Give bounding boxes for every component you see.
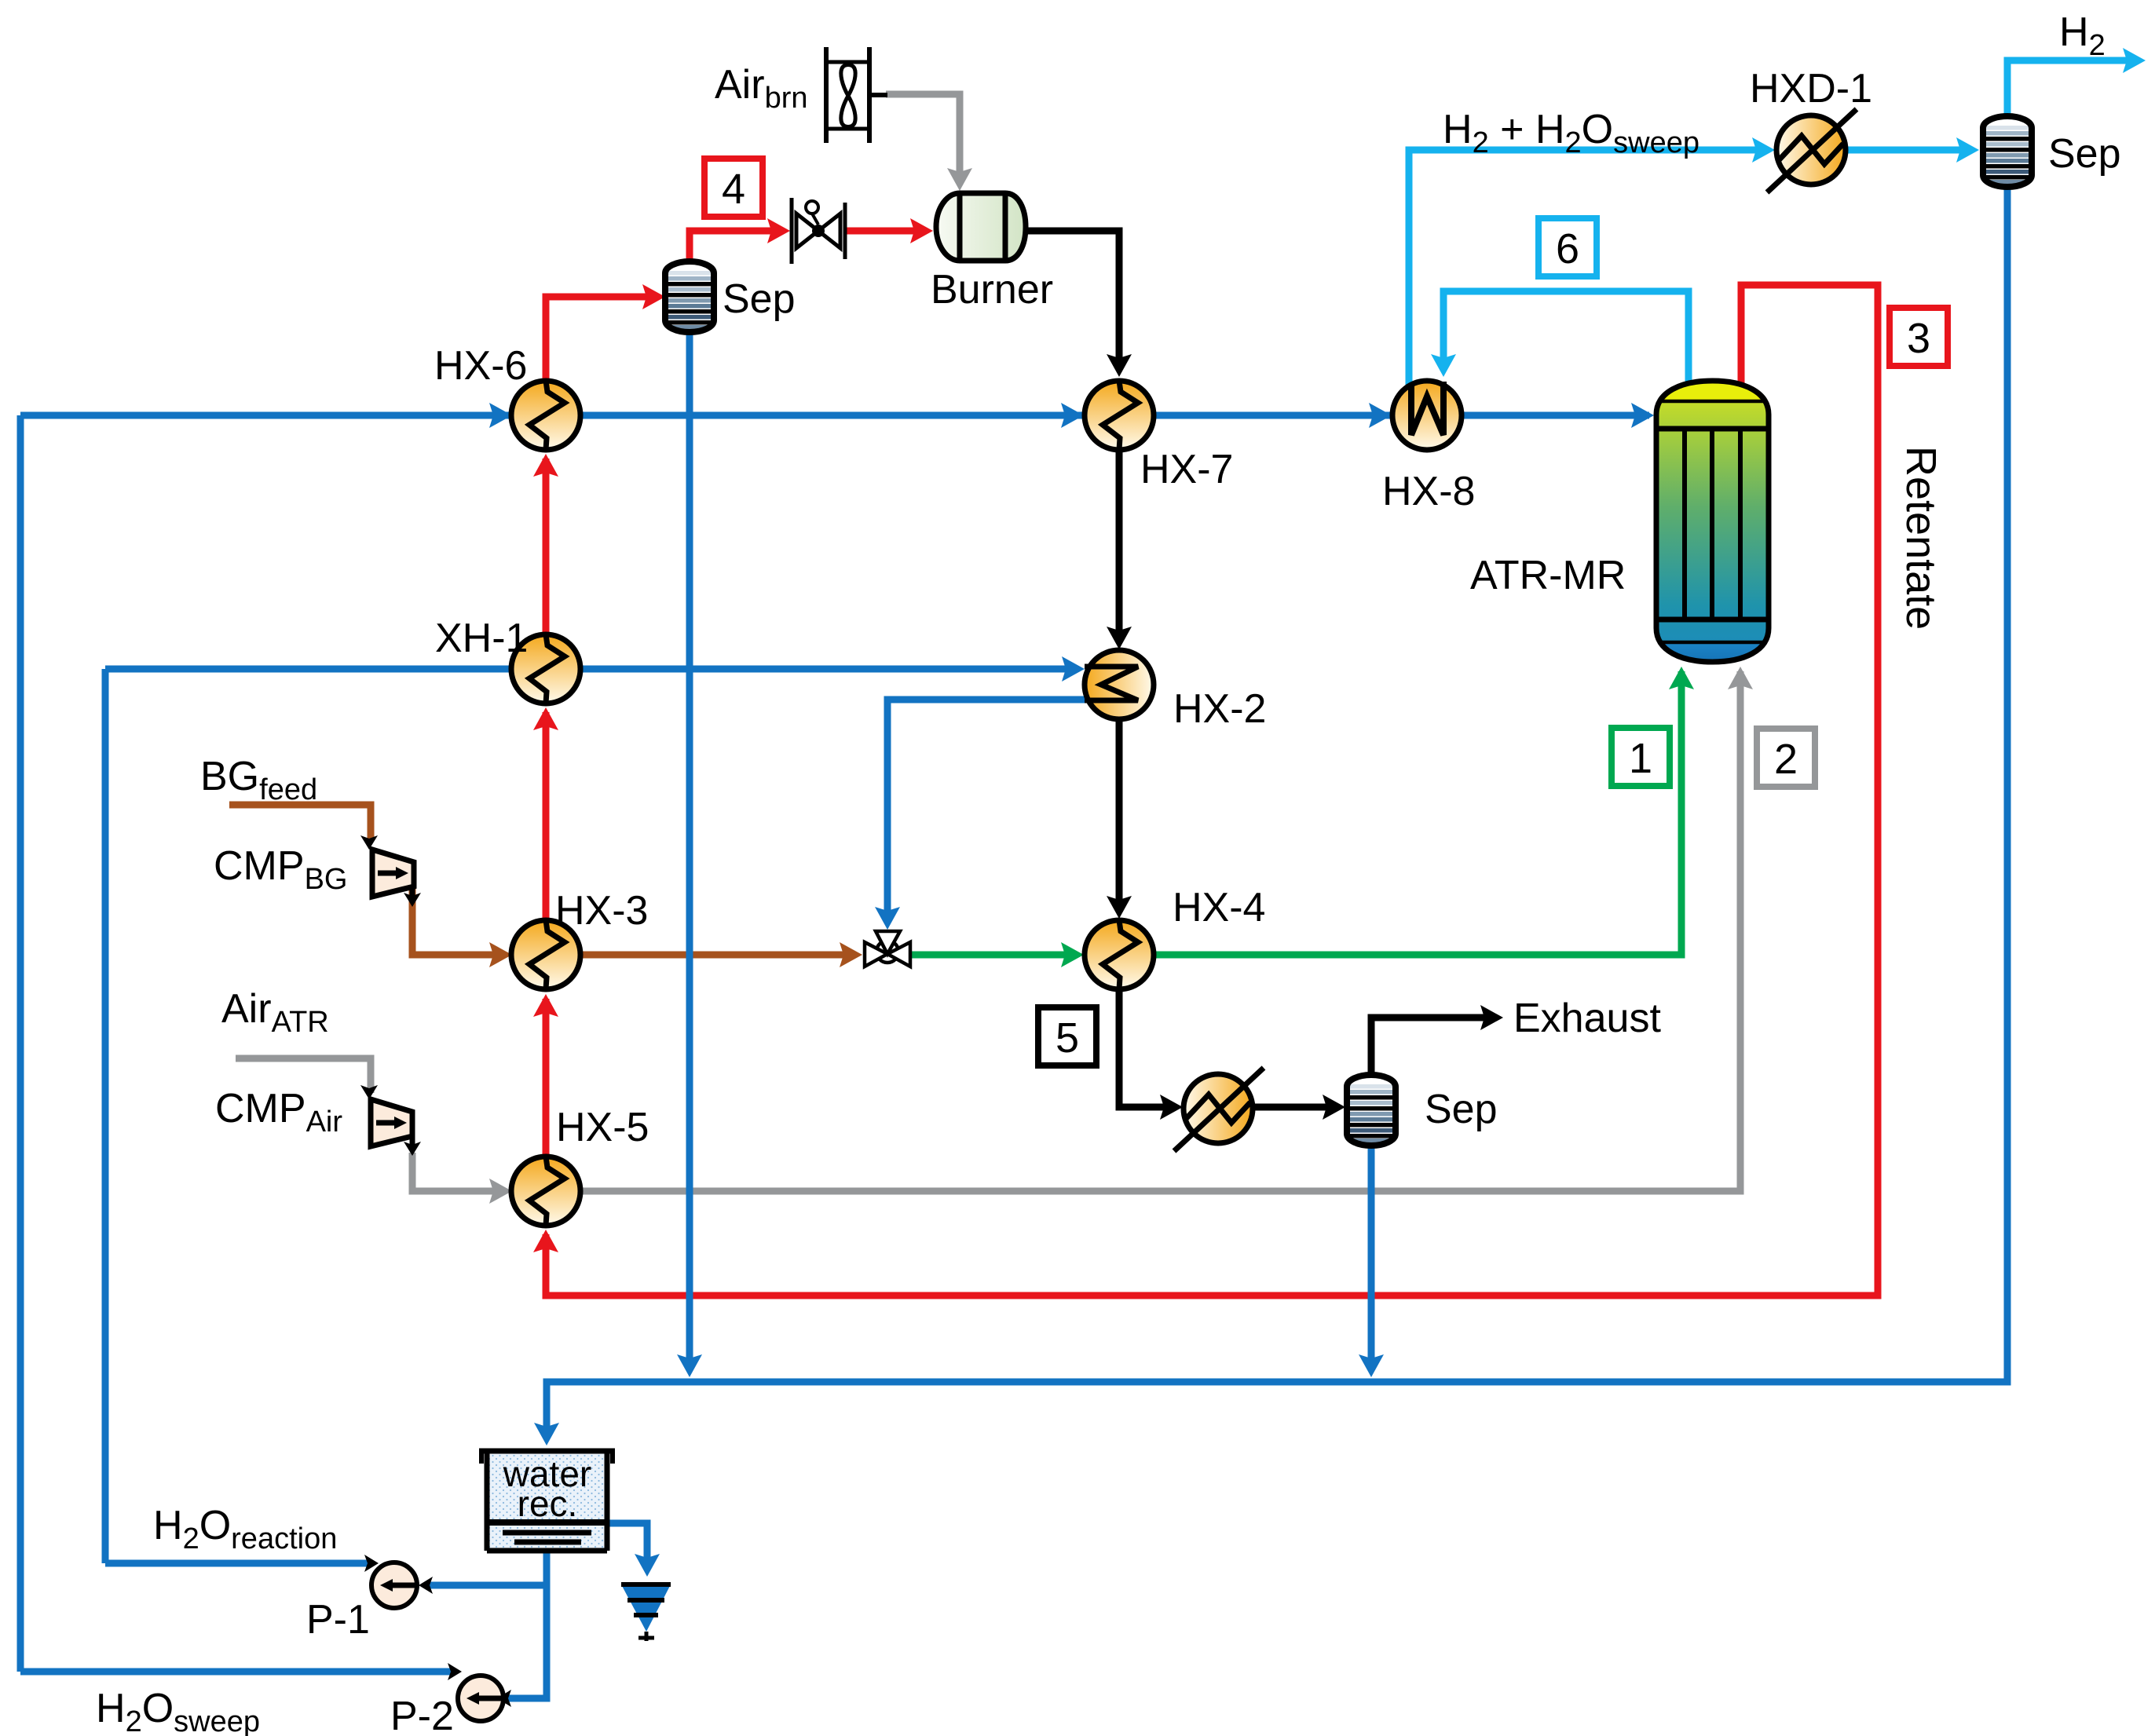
svg-text:HX-8: HX-8 bbox=[1382, 469, 1475, 514]
wire brown HX-3 to mixing valve bbox=[580, 952, 854, 959]
compressor CMP_BG bbox=[372, 850, 414, 897]
node stream box 2 bbox=[1757, 729, 1815, 787]
valve V-1 (burner feed control valve) bbox=[792, 198, 845, 264]
svg-text:HX-5: HX-5 bbox=[556, 1105, 649, 1150]
svg-text:XH-1: XH-1 bbox=[435, 616, 528, 661]
wire blue tank bottom to pumps bbox=[507, 1551, 547, 1698]
separator Sep (H2 product) bbox=[1983, 116, 2032, 187]
svg-text:HXD-1: HXD-1 bbox=[1750, 66, 1872, 111]
arrow blue into HX-7 bbox=[1061, 403, 1084, 428]
wire cyan HXD-1 to Sep bbox=[1846, 147, 1971, 154]
wire black burner outlet down through HX-7 bbox=[1026, 231, 1119, 370]
svg-text:2: 2 bbox=[1774, 736, 1798, 783]
svg-text:1: 1 bbox=[1629, 735, 1652, 782]
wire brown BGfeed to CMP inlet bbox=[229, 805, 371, 839]
heat-exchanger HX-6 bbox=[511, 381, 580, 450]
fan Air_brn bbox=[826, 47, 887, 143]
node stream box 3 bbox=[1890, 308, 1948, 366]
heat-exchanger HX-3 bbox=[511, 920, 580, 989]
svg-text:Sep: Sep bbox=[2048, 131, 2121, 177]
svg-text:5: 5 bbox=[1056, 1014, 1079, 1062]
svg-text:Sep: Sep bbox=[723, 276, 796, 322]
svg-text:4: 4 bbox=[722, 166, 745, 213]
wire black HX-2 to HX-4 bbox=[1116, 719, 1123, 912]
wire gray HX-5 to ATR bottom (stream 2) bbox=[580, 671, 1740, 1191]
wire red vertical XH-1 to HX-6 bbox=[543, 459, 550, 633]
heat-exchanger HX-7 bbox=[1085, 381, 1154, 450]
wire red retentate: ATR top, right, down, bottom, up to HX-5 bbox=[546, 285, 1878, 1296]
wire black Sep top to Exhaust bbox=[1371, 1018, 1495, 1076]
burner vessel bbox=[936, 193, 1026, 261]
wire cyan stream 6: ATR top to HX-8 bbox=[1443, 291, 1689, 393]
svg-text:P-1: P-1 bbox=[306, 1597, 370, 1643]
arrow blue into HX-8 bbox=[1369, 403, 1392, 428]
heat-exchanger HXD-1 bbox=[1767, 109, 1857, 192]
wire blue Sep(top) drain down bbox=[686, 331, 693, 1370]
wire gray CMPair outlet to HX-5 bbox=[412, 1153, 504, 1191]
node stream box 4 bbox=[704, 159, 763, 217]
pump P-2 bbox=[458, 1676, 503, 1721]
wire cyan permeate HX-8 to HXD-1 bbox=[1409, 150, 1767, 389]
separator Sep (burner loop) bbox=[665, 261, 714, 332]
wire brown CMPbg outlet to HX-3 bbox=[412, 888, 504, 955]
node stream box 5 bbox=[1038, 1007, 1096, 1065]
heat-exchanger HX-4 bbox=[1085, 920, 1154, 989]
heat-exchanger HX-2 bbox=[1085, 650, 1154, 719]
svg-text:HX-4: HX-4 bbox=[1173, 885, 1265, 930]
wire gray Airbrn fan to burner bbox=[886, 94, 960, 184]
arrow blue into HX-6 bbox=[489, 403, 512, 428]
svg-text:Exhaust: Exhaust bbox=[1513, 996, 1661, 1041]
wire red Sep top to valve to Burner bbox=[690, 231, 782, 264]
svg-text:P-2: P-2 bbox=[390, 1694, 454, 1736]
arrow blue into ATR-MR bbox=[1631, 403, 1654, 428]
heat-exchanger HX-5 bbox=[511, 1157, 580, 1226]
wire black HX-7 to HX-2 bbox=[1116, 449, 1123, 642]
node stream box 1 bbox=[1612, 728, 1670, 786]
compressor CMP_Air bbox=[371, 1099, 412, 1146]
separator Sep (exhaust) bbox=[1347, 1075, 1396, 1146]
node stream box 6 bbox=[1539, 218, 1597, 276]
wire blue reaction-water left vertical bbox=[102, 669, 109, 1563]
svg-text:3: 3 bbox=[1907, 315, 1930, 362]
wire blue HX-2 outlet to mixing valve bbox=[887, 700, 1086, 923]
tank water rec. bbox=[479, 1450, 615, 1551]
arrow red into HX-5 bottom bbox=[533, 1230, 558, 1252]
wire green HX-4 to ATR bottom (stream 1) bbox=[1154, 671, 1681, 955]
svg-text:HX-7: HX-7 bbox=[1140, 447, 1233, 492]
wire green valve to HX-4 bbox=[911, 952, 1076, 959]
wire red vertical HX-5 to HX-3 bbox=[543, 999, 550, 1157]
wire blue sweep-water left vertical bbox=[17, 415, 24, 1672]
wire cyan Sep top to H2 product bbox=[2007, 60, 2138, 116]
svg-text:Retentate: Retentate bbox=[1897, 446, 1945, 630]
wire blue tank outlet to drain bbox=[606, 1523, 647, 1569]
wire blue Sep(mid) drain down bbox=[1368, 1144, 1375, 1370]
arrow blue into HX-2 bbox=[1062, 656, 1085, 682]
svg-text:ATR-MR: ATR-MR bbox=[1470, 553, 1626, 598]
wire black cooler to Sep bbox=[1253, 1104, 1337, 1111]
wire red HX-6 top to Sep bbox=[546, 297, 658, 382]
wire blue sweep-water main line y=529 bbox=[20, 412, 1649, 419]
svg-text:Sep: Sep bbox=[1425, 1087, 1498, 1132]
wire black HX-4 to cooler bbox=[1119, 989, 1175, 1107]
svg-text:HX-3: HX-3 bbox=[555, 888, 648, 934]
svg-text:Burner: Burner bbox=[931, 267, 1053, 312]
cooler (exhaust condenser) bbox=[1174, 1068, 1264, 1151]
wire blue Sep(right) drain down and bottom header bbox=[547, 188, 2007, 1438]
svg-text:HX-2: HX-2 bbox=[1173, 686, 1266, 732]
heat-exchanger HX-8 bbox=[1392, 381, 1462, 450]
svg-text:rec.: rec. bbox=[518, 1483, 578, 1524]
wire blue H2Oreaction bottom horizontal bbox=[105, 1560, 369, 1567]
wire red vertical HX-3 to XH-1 bbox=[543, 712, 550, 919]
drain symbol bbox=[621, 1584, 671, 1641]
wire gray AirATR to CMP inlet bbox=[236, 1058, 371, 1093]
valve 3-way mixing valve bbox=[865, 931, 910, 967]
wire blue H2Osweep bottom horizontal bbox=[20, 1668, 452, 1676]
pump P-1 bbox=[371, 1562, 417, 1608]
heat-exchanger XH-1 bbox=[511, 634, 580, 704]
svg-text:6: 6 bbox=[1556, 225, 1579, 272]
svg-text:HX-6: HX-6 bbox=[434, 343, 527, 389]
wire blue reaction-water line y=852 bbox=[105, 666, 1074, 673]
